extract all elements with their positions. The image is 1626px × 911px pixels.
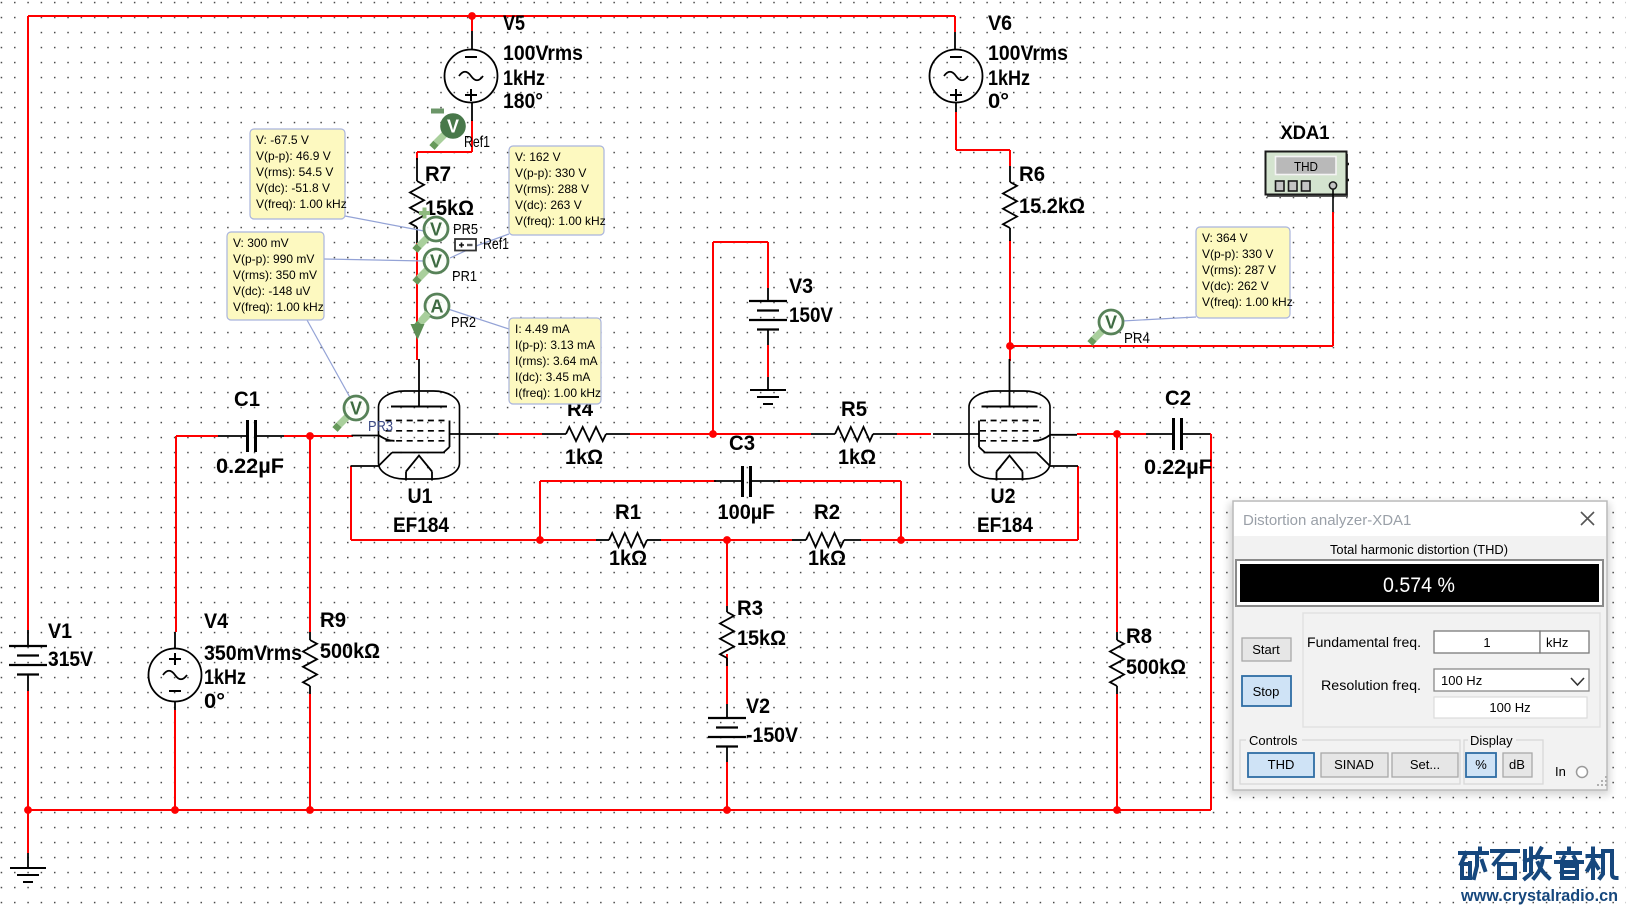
svg-text:V: V [430, 252, 442, 272]
svg-text:R8: R8 [1126, 624, 1152, 648]
battery V1 [9, 619, 94, 691]
svg-text:315V: 315V [48, 647, 94, 671]
svg-text:THD: THD [1294, 160, 1318, 174]
svg-text:V(dc): 262 V: V(dc): 262 V [1202, 279, 1269, 293]
wire V3 to ground [767, 345, 769, 377]
vacuum tube U2 EF184 [933, 359, 1078, 537]
svg-text:-150V: -150V [746, 723, 799, 747]
svg-text:U2: U2 [991, 484, 1016, 508]
resistor R8 [1110, 624, 1186, 694]
svg-text:0°: 0° [988, 89, 1009, 113]
svg-text:V: 162 V: V: 162 V [515, 150, 561, 164]
resistor R3 [720, 596, 786, 666]
svg-text:V(dc): -51.8 V: V(dc): -51.8 V [256, 181, 330, 195]
distortion analyzer window XDA1 [1229, 501, 1610, 795]
svg-text:THD: THD [1268, 757, 1295, 772]
svg-text:R9: R9 [320, 608, 346, 632]
wire C2 right down to bus [1210, 434, 1211, 810]
wire V5 bottom to R7 corner [417, 120, 472, 160]
connector line tooltip E to PR4 [1122, 317, 1196, 321]
wire C1 right to U1 grid [284, 435, 353, 437]
svg-text:V(freq): 1.00 kHz: V(freq): 1.00 kHz [233, 300, 324, 314]
voltage source V4 [149, 609, 303, 713]
probe PR2 (current) [411, 294, 477, 340]
svg-text:1kHz: 1kHz [204, 665, 246, 689]
svg-text:500kΩ: 500kΩ [320, 639, 380, 663]
svg-text:15kΩ: 15kΩ [737, 626, 786, 650]
svg-text:1kHz: 1kHz [503, 66, 545, 90]
wire V5 top stub [471, 16, 473, 31]
svg-text:EF184: EF184 [393, 513, 449, 537]
svg-text:In: In [1555, 764, 1566, 779]
svg-text:%: % [1475, 757, 1487, 772]
svg-text:100Vrms: 100Vrms [503, 41, 583, 65]
ground bottom left [10, 853, 46, 882]
svg-text:350mVrms: 350mVrms [204, 641, 302, 665]
svg-text:Ref1: Ref1 [483, 236, 509, 253]
capacitor C3 [714, 431, 780, 524]
svg-text:V2: V2 [746, 694, 770, 718]
svg-text:SINAD: SINAD [1334, 757, 1374, 772]
svg-text:V(p-p): 330 V: V(p-p): 330 V [515, 166, 586, 180]
node junctions on ground bus [24, 806, 1121, 814]
vacuum tube U1 EF184 [351, 359, 499, 537]
svg-text:V: V [1105, 313, 1117, 333]
svg-text:U1: U1 [408, 484, 433, 508]
svg-text:Display: Display [1470, 733, 1513, 748]
wire V6 top stub [954, 16, 956, 32]
wire bottom ground bus [28, 809, 1211, 811]
voltage source V6 [930, 11, 1069, 113]
probe PR5 [415, 208, 478, 251]
probe PR1 [415, 249, 477, 285]
tooltip B (PR3 values) [227, 232, 324, 320]
wire C3 right branch [778, 481, 901, 540]
wire R9 column [309, 436, 311, 810]
svg-text:V(p-p): 330 V: V(p-p): 330 V [1202, 247, 1273, 261]
voltage source V5 [445, 11, 584, 121]
svg-text:V3: V3 [789, 274, 813, 298]
probe Ref1 differential icon [455, 236, 509, 253]
svg-text:V: 300 mV: V: 300 mV [233, 236, 289, 250]
svg-text:XDA1: XDA1 [1281, 123, 1330, 144]
wire U2 plate stub [1009, 346, 1011, 361]
svg-text:100Vrms: 100Vrms [988, 41, 1068, 65]
svg-text:V6: V6 [988, 11, 1012, 35]
svg-text:V: V [430, 220, 442, 240]
node junction C3-left / R1 row [536, 536, 544, 544]
resistor R5 [811, 397, 897, 469]
capacitor C1 [216, 387, 284, 478]
svg-text:R7: R7 [425, 162, 451, 186]
svg-text:Ref1: Ref1 [464, 134, 490, 151]
svg-text:500kΩ: 500kΩ [1126, 655, 1186, 679]
svg-text:V(freq): 1.00 kHz: V(freq): 1.00 kHz [1202, 295, 1293, 309]
wire V2 bottom [726, 762, 728, 810]
svg-text:R5: R5 [841, 397, 867, 421]
probe Ref1 (filled) below V5 [431, 111, 490, 151]
svg-text:V(dc): 263 V: V(dc): 263 V [515, 198, 582, 212]
svg-text:I(rms): 3.64 mA: I(rms): 3.64 mA [515, 354, 598, 368]
svg-text:Set...: Set... [1410, 757, 1440, 772]
connector line tooltip A to PR5 [345, 216, 424, 231]
svg-text:1kHz: 1kHz [988, 66, 1030, 90]
svg-text:V4: V4 [204, 609, 228, 633]
node junction R1/R2/R3 [723, 536, 731, 544]
resistor R1 [596, 500, 661, 570]
svg-text:PR2: PR2 [451, 314, 476, 331]
svg-text:0°: 0° [204, 689, 225, 713]
svg-text:180°: 180° [503, 89, 543, 113]
wire R6 bottom to U2 plate node [1009, 240, 1011, 346]
wire R8 column [1116, 434, 1118, 810]
svg-text:dB: dB [1509, 757, 1525, 772]
svg-text:100µF: 100µF [718, 500, 775, 524]
svg-text:Stop: Stop [1253, 684, 1280, 699]
svg-text:V(freq): 1.00 kHz: V(freq): 1.00 kHz [256, 197, 347, 211]
svg-text:1kΩ: 1kΩ [609, 546, 647, 570]
wire U1 cathode down and along [351, 466, 596, 540]
svg-text:V(rms): 54.5 V: V(rms): 54.5 V [256, 165, 333, 179]
node junction C2 / R8 [1113, 430, 1121, 438]
svg-text:V: V [350, 399, 362, 419]
svg-text:I(dc): 3.45 mA: I(dc): 3.45 mA [515, 370, 590, 384]
svg-text:100 Hz: 100 Hz [1489, 700, 1530, 715]
svg-text:V1: V1 [48, 619, 72, 643]
connector line tooltip D to PR2 [448, 309, 509, 329]
svg-text:R2: R2 [814, 500, 840, 524]
svg-text:PR1: PR1 [452, 268, 477, 285]
svg-text:100 Hz: 100 Hz [1441, 673, 1482, 688]
svg-text:R1: R1 [615, 500, 641, 524]
resistor R4 [542, 397, 630, 469]
connector line tooltip B to PR1 [324, 259, 424, 261]
svg-text:C2: C2 [1165, 386, 1191, 410]
wire center node to R5 [713, 433, 811, 435]
svg-text:EF184: EF184 [977, 513, 1033, 537]
svg-text:Resolution freq.: Resolution freq. [1321, 678, 1421, 693]
svg-text:kHz: kHz [1546, 635, 1568, 650]
tooltip E (PR4 values) [1196, 227, 1293, 318]
svg-text:Fundamental freq.: Fundamental freq. [1307, 635, 1421, 650]
svg-text:V(p-p): 46.9 V: V(p-p): 46.9 V [256, 149, 331, 163]
svg-text:I(p-p): 3.13 mA: I(p-p): 3.13 mA [515, 338, 595, 352]
svg-text:V(p-p): 990 mV: V(p-p): 990 mV [233, 252, 314, 266]
svg-text:0.574 %: 0.574 % [1383, 573, 1455, 597]
svg-text:V(dc): -148 uV: V(dc): -148 uV [233, 284, 310, 298]
svg-text:R6: R6 [1019, 162, 1045, 186]
probe PR4 [1090, 310, 1150, 347]
svg-text:Controls: Controls [1249, 733, 1298, 748]
svg-text:15.2kΩ: 15.2kΩ [1019, 194, 1085, 218]
svg-text:1kΩ: 1kΩ [808, 546, 846, 570]
svg-text:V(rms): 350 mV: V(rms): 350 mV [233, 268, 317, 282]
tooltip D (PR2 values) [509, 318, 601, 404]
svg-text:www.crystalradio.cn: www.crystalradio.cn [1460, 886, 1618, 905]
battery V2 [708, 694, 799, 762]
wire R2 right to U2 cathode loop [861, 466, 1078, 540]
wire plate node to XDA1 [1010, 212, 1333, 346]
svg-text:C1: C1 [234, 387, 260, 411]
ground below V3 [750, 377, 786, 404]
svg-text:I: 4.49 mA: I: 4.49 mA [515, 322, 570, 336]
instrument XDA1 icon [1266, 123, 1350, 212]
node junction R4/R5/V3 [709, 430, 717, 438]
capacitor C2 [1144, 386, 1212, 479]
wire top bus from V1 column to V6 column [28, 15, 955, 17]
svg-text:V(freq): 1.00 kHz: V(freq): 1.00 kHz [515, 214, 606, 228]
wire V3 column riser [713, 242, 768, 434]
resistor R6 [1003, 162, 1085, 241]
wire R1 to R2 row [661, 539, 792, 541]
wire C3 left branch [540, 481, 716, 540]
wire V4 bottom [174, 710, 176, 810]
resistor R9 [303, 608, 380, 694]
svg-text:PR3: PR3 [368, 418, 393, 435]
connector line tooltip B to PR3 [307, 320, 352, 401]
wire ground stub bottom left [27, 810, 29, 853]
battery V3 [749, 274, 834, 345]
svg-text:Start: Start [1252, 642, 1280, 657]
svg-text:C3: C3 [729, 431, 755, 455]
probe PR3 [335, 396, 393, 435]
wire C1 left + down to V4 [176, 436, 218, 632]
resistor R2 [792, 500, 861, 570]
wire left vertical V1 column [27, 16, 29, 630]
wire V1 bottom [27, 691, 29, 810]
svg-text:V: V [447, 117, 459, 137]
wire U1 screen to R4 [498, 433, 542, 435]
svg-text:V: -67.5 V: V: -67.5 V [256, 133, 309, 147]
resistor R7 [410, 158, 474, 243]
svg-text:1kΩ: 1kΩ [565, 445, 603, 469]
wire R5 to U2 screen [897, 433, 931, 435]
svg-text:V(rms): 287 V: V(rms): 287 V [1202, 263, 1276, 277]
svg-text:Distortion analyzer-XDA1: Distortion analyzer-XDA1 [1243, 512, 1411, 529]
svg-text:V(rms): 288 V: V(rms): 288 V [515, 182, 589, 196]
wire R4 to center node [630, 433, 713, 435]
svg-text:150V: 150V [789, 303, 834, 327]
svg-text:PR4: PR4 [1124, 330, 1150, 347]
svg-text:1kΩ: 1kΩ [838, 445, 876, 469]
svg-text:V: 364 V: V: 364 V [1202, 231, 1248, 245]
svg-text:0.22µF: 0.22µF [1144, 455, 1212, 479]
svg-text:R3: R3 [737, 596, 763, 620]
svg-text:1: 1 [1483, 635, 1490, 650]
node junction C1 / R9 [306, 432, 314, 440]
svg-text:A: A [431, 297, 444, 317]
svg-text:Total harmonic distortion (THD: Total harmonic distortion (THD) [1330, 542, 1508, 557]
wire V6 bottom to R6 [956, 112, 1010, 166]
wire R7 bottom to U1 plate [416, 243, 418, 360]
tooltip C (PR1 values) [509, 146, 606, 235]
svg-text:PR5: PR5 [453, 221, 478, 238]
node junction U2 plate / R6 / XDA1 [1006, 342, 1014, 350]
watermark crystalradio logo [1460, 849, 1617, 879]
node junction top bus / V5 [468, 12, 476, 20]
tooltip A (PR5 values) [250, 129, 347, 219]
connector line tooltip C to Ref1 icon [450, 234, 509, 258]
wire R3 column [726, 540, 728, 704]
svg-text:0.22µF: 0.22µF [216, 454, 284, 478]
wire U2 grid to C2 [1077, 433, 1146, 435]
node junction R2 / U2 cathode [897, 536, 905, 544]
svg-text:I(freq): 1.00 kHz: I(freq): 1.00 kHz [515, 386, 601, 400]
svg-text:V5: V5 [503, 11, 525, 35]
